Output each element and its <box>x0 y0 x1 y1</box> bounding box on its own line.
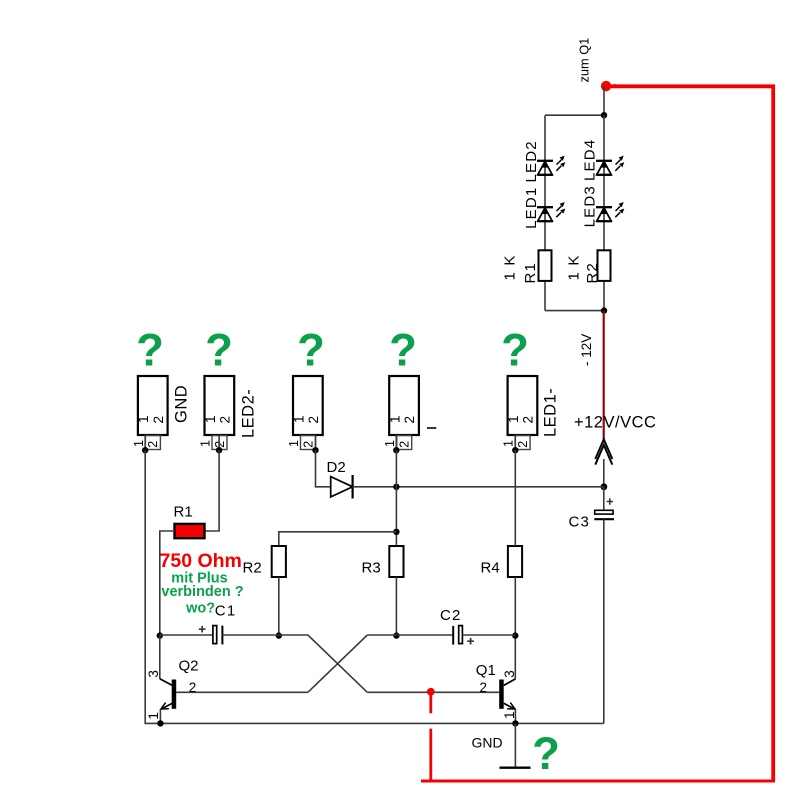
svg-text:?: ? <box>532 728 560 779</box>
svg-text:C1: C1 <box>215 603 237 620</box>
svg-text:C2: C2 <box>440 607 462 624</box>
svg-text:Q2: Q2 <box>179 658 199 675</box>
wire red annotation top <box>607 86 773 781</box>
svg-text:?: ? <box>205 325 233 376</box>
svg-text:2: 2 <box>189 680 197 695</box>
node junction top <box>601 112 607 118</box>
svg-text:LED2-: LED2- <box>240 389 258 438</box>
connector X1 GND <box>132 376 168 450</box>
svg-text:1 K: 1 K <box>502 254 519 280</box>
svg-text:GND: GND <box>173 385 191 423</box>
wire R2 top row <box>279 532 397 546</box>
svg-text:750 Ohm: 750 Ohm <box>160 550 242 572</box>
resistor R1 1K top <box>539 250 552 281</box>
capacitor C3 <box>603 487 605 511</box>
wire cross coupling A <box>308 635 367 692</box>
wire X2 to R1 <box>205 450 220 531</box>
wire C2 left segment <box>367 634 396 636</box>
svg-text:?: ? <box>297 325 325 376</box>
ground symbol GND <box>514 723 516 767</box>
svg-text:wo?: wo? <box>185 600 215 616</box>
wire X5 to R4 <box>514 450 516 546</box>
node R4/C2 junction <box>512 632 518 638</box>
svg-text:R1: R1 <box>174 504 193 521</box>
wire X4 down to R3 <box>395 450 397 546</box>
node Q1 emitter junction <box>512 720 518 726</box>
node D2/X4 junction <box>393 484 399 490</box>
svg-text:R2: R2 <box>243 560 262 577</box>
node C3 top junction <box>601 483 608 490</box>
svg-text:LED4: LED4 <box>582 139 599 181</box>
svg-text:?: ? <box>136 325 164 376</box>
wire red annotation bottom <box>421 780 775 783</box>
resistor R4 <box>508 546 522 577</box>
wire C2 right <box>462 634 515 636</box>
svg-text:zum Q1: zum Q1 <box>577 38 592 83</box>
supply +12V/VCC symbol <box>595 439 612 459</box>
wire X3 to D2 <box>316 450 331 487</box>
capacitor C1 <box>160 634 213 636</box>
LED LED1 <box>537 202 565 221</box>
node R3/C2 junction <box>393 632 399 638</box>
svg-text:LED1-: LED1- <box>542 388 560 437</box>
LED LED4 <box>596 156 624 175</box>
wire R3 bottom <box>395 577 397 636</box>
node junction bottom of LED branches <box>601 307 607 313</box>
wire R4 bottom to Q1 collector <box>514 577 516 679</box>
node R2 top row junction <box>393 529 399 535</box>
diode D2 <box>331 477 353 497</box>
node Q2 emitter junction <box>157 720 163 726</box>
wire C3 down to ground row <box>603 519 605 723</box>
resistor R2 <box>272 546 286 577</box>
svg-text:3: 3 <box>502 670 517 678</box>
wire red stub at Q1 base <box>429 692 432 714</box>
node red dot zum Q1 <box>601 81 611 91</box>
capacitor C2 <box>396 634 452 636</box>
wire D2 to C3 node <box>353 486 604 488</box>
connector X4 net I <box>383 376 419 450</box>
wire cross coupling B <box>308 635 367 692</box>
svg-text:1 K: 1 K <box>566 254 583 280</box>
transistor Q2 <box>172 680 177 709</box>
svg-text:verbinden ?: verbinden ? <box>161 584 243 600</box>
svg-text:?: ? <box>389 325 417 376</box>
transistor Q1 <box>499 680 504 709</box>
svg-text:R2: R2 <box>584 262 601 284</box>
svg-text:R1: R1 <box>522 262 539 284</box>
svg-text:R3: R3 <box>362 560 381 577</box>
wire left LED branch <box>544 115 546 250</box>
wire R1 left down <box>160 531 175 636</box>
node R2/C1 junction <box>276 632 282 638</box>
wire branch top <box>545 114 604 116</box>
svg-text:C3: C3 <box>569 514 591 531</box>
resistor R2 1K top <box>598 250 611 281</box>
LED LED2 <box>537 156 565 175</box>
svg-text:LED3: LED3 <box>582 185 599 227</box>
svg-text:2: 2 <box>480 680 488 695</box>
svg-text:LED2: LED2 <box>523 140 540 182</box>
node R1/C1 junction <box>157 632 163 638</box>
wire X1 to ground row <box>145 450 604 723</box>
wire -12V maroon <box>603 311 605 440</box>
LED LED3 <box>596 202 624 221</box>
svg-text:GND: GND <box>472 735 503 751</box>
svg-text:1: 1 <box>146 712 161 720</box>
resistor R3 <box>389 546 403 577</box>
wire C1 right <box>222 634 308 636</box>
svg-text:1: 1 <box>502 711 517 719</box>
resistor R1 750 Ohm red <box>175 524 205 538</box>
svg-text:3: 3 <box>146 670 161 678</box>
svg-text:LED1: LED1 <box>523 187 540 229</box>
svg-text:?: ? <box>501 325 529 376</box>
svg-text:Q1: Q1 <box>476 662 496 679</box>
connector X2 LED2- <box>199 376 235 450</box>
wire Q1 base row <box>367 691 499 693</box>
wire right LED branch <box>603 115 605 250</box>
node red dot Q1 base <box>427 688 435 696</box>
connector X3 <box>287 376 323 450</box>
wire Q2 base row <box>176 691 308 693</box>
svg-text:D2: D2 <box>327 459 346 476</box>
wire top node down <box>603 86 605 115</box>
svg-text:+12V/VCC: +12V/VCC <box>574 414 656 432</box>
wire below supply <box>603 459 605 487</box>
connector X5 LED1- <box>502 376 538 450</box>
svg-text:R4: R4 <box>481 560 500 577</box>
wire R2 bottom <box>278 577 280 636</box>
svg-text:- 12V: - 12V <box>579 334 594 366</box>
